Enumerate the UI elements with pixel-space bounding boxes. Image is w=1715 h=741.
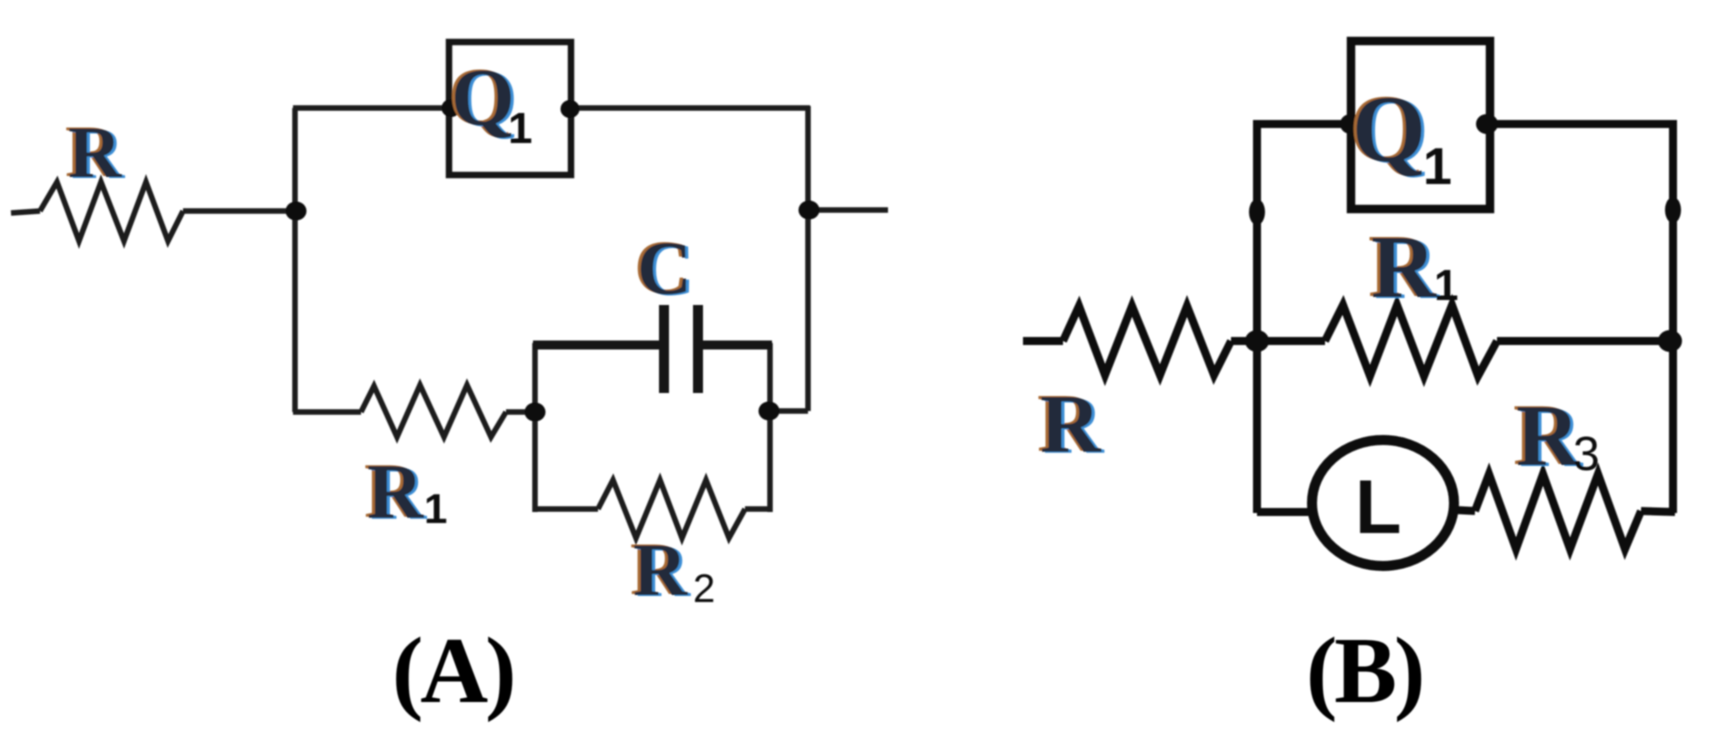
wire: sub-block left vertical	[532, 343, 538, 512]
node: Q1 left pin dot (A)	[442, 99, 461, 117]
svg-text:(B): (B)	[1306, 619, 1422, 723]
wire: capacitor branch left lead	[533, 341, 660, 350]
CPE Q1 box (circuit B)	[1351, 41, 1490, 209]
wire: right output stub of circuit A	[808, 207, 888, 213]
node: Q1 right pin dot (B)	[1476, 114, 1498, 134]
wire: sub-block right vertical	[767, 343, 773, 512]
wire: R3 to right vertical (B)	[1641, 511, 1675, 512]
label R1 (circuit A)	[364, 447, 447, 536]
wire: B top branch left (to Q1 box)	[1253, 120, 1348, 128]
svg-text:C: C	[637, 227, 692, 311]
label Q1 (circuit A)	[448, 51, 532, 153]
label Q1 (circuit B)	[1349, 75, 1452, 196]
wire: top branch right (Q1 box to right vertical)	[573, 105, 810, 111]
node: sub-block left junction dot (A)	[525, 403, 546, 422]
node: small dot on B right vertical	[1665, 197, 1681, 223]
svg-text:Q: Q	[1352, 76, 1426, 182]
svg-text:3: 3	[1573, 428, 1600, 481]
wire: bottom branch from left vertical to R1	[293, 409, 361, 415]
svg-text:L: L	[1355, 465, 1401, 550]
label R (circuit A)	[65, 111, 126, 195]
svg-text:1: 1	[424, 485, 447, 532]
label R2 (circuit A)	[630, 528, 715, 613]
svg-text:1: 1	[1423, 138, 1452, 196]
svg-text:(A): (A)	[392, 619, 514, 723]
svg-text:R: R	[1040, 378, 1102, 471]
resistor R1 (bottom branch, circuit A)	[361, 385, 506, 437]
wire: B left vertical branch line	[1253, 120, 1261, 513]
wire: B right vertical branch line	[1669, 120, 1677, 513]
wire: R1 to sub-block node	[506, 409, 535, 415]
node: A left junction dot	[286, 202, 307, 221]
resistor R2 (circuit A)	[598, 480, 745, 538]
svg-text:2: 2	[693, 567, 715, 611]
node: Q1 right pin dot (A)	[561, 100, 580, 118]
node: sub-block right junction dot (A)	[759, 402, 780, 421]
svg-text:Q: Q	[451, 52, 515, 143]
wire: sub-block bottom left segment	[533, 506, 598, 512]
node: B right junction dot (middle branch)	[1658, 330, 1682, 352]
wire: B middle branch left (node to R1)	[1257, 337, 1325, 345]
resistor R (series, circuit A)	[40, 182, 183, 241]
wire: top branch left (node to Q1 box)	[293, 105, 447, 111]
label R1 (circuit B)	[1368, 217, 1458, 318]
wire: R2 to sub-block right vertical	[745, 506, 772, 512]
label C (circuit A)	[634, 226, 695, 312]
wire: capacitor branch right lead	[702, 341, 772, 350]
wire: R to main node B	[1231, 337, 1258, 345]
wire: R to left node	[183, 208, 296, 214]
resistor R (series, circuit B)	[1063, 306, 1231, 375]
CPE Q1 box (circuit A)	[449, 42, 571, 175]
wire: sub-block right node to main right vertical	[770, 408, 808, 414]
wire: inductor to R3	[1455, 510, 1475, 511]
svg-text:R: R	[1516, 388, 1581, 485]
node: B main left junction dot	[1245, 330, 1269, 352]
wire: B bottom branch left (to inductor)	[1257, 508, 1313, 516]
svg-text:R: R	[633, 529, 688, 612]
wire: left input stub of circuit B	[1023, 337, 1063, 345]
svg-text:R: R	[1371, 218, 1437, 317]
label R3 (circuit B)	[1513, 387, 1600, 486]
node: A right output junction dot	[799, 201, 820, 220]
node: Q1 left pin dot (B)	[1340, 114, 1362, 134]
capacitor C plates	[659, 305, 669, 393]
resistor R3 (circuit B)	[1475, 474, 1641, 549]
svg-text:R: R	[68, 112, 123, 194]
resistor R1 (circuit B)	[1325, 305, 1497, 376]
wire: R1 to right vertical (B)	[1497, 337, 1673, 345]
inductor L (circuit B)	[1312, 440, 1454, 566]
svg-text:R: R	[367, 448, 425, 535]
wire: right vertical branch line	[805, 106, 811, 411]
wire: left vertical branch line	[292, 108, 298, 412]
label R (circuit B)	[1037, 377, 1105, 472]
svg-text:1: 1	[508, 104, 532, 153]
node: small dot on B left vertical	[1249, 199, 1265, 225]
wire: left input stub of circuit A	[11, 211, 40, 213]
svg-text:1: 1	[1434, 261, 1458, 310]
wire: B top branch right (Q1 box to right vertical)	[1493, 120, 1674, 128]
